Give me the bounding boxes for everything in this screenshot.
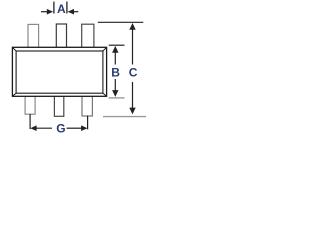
svg-text:C: C bbox=[129, 66, 138, 80]
svg-text:A: A bbox=[57, 2, 66, 16]
svg-text:B: B bbox=[111, 66, 120, 80]
svg-text:G: G bbox=[56, 122, 65, 136]
